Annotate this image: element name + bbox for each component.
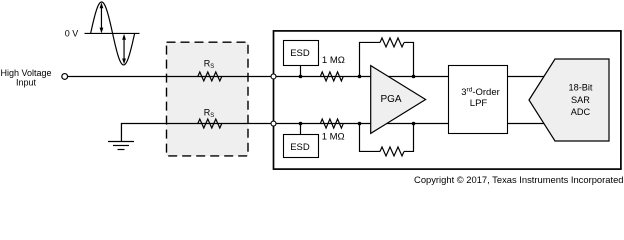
wire: ESD stub bottom — [300, 124, 302, 135]
wire: top input inside box — [276, 75, 370, 77]
ESD block bottom — [284, 135, 319, 158]
svg-text:ESD: ESD — [290, 142, 310, 153]
wire: LPF to ADC top — [508, 75, 547, 77]
sine positive amplitude arrow — [100, 7, 102, 30]
resistor 1 Mohm top — [320, 72, 343, 81]
terminal circle bottom input — [271, 121, 276, 126]
ground — [108, 142, 134, 150]
svg-text:Copyright © 2017, Texas Instru: Copyright © 2017, Texas Instruments Inco… — [414, 174, 623, 185]
LPF block 3rd-Order — [449, 66, 508, 134]
svg-text:18-Bit: 18-Bit — [568, 83, 592, 93]
terminal circle top input — [271, 74, 276, 79]
ESD block top — [284, 41, 319, 66]
op-amp PGA — [371, 66, 426, 134]
feedback wire bottom — [360, 124, 414, 152]
junction dot top feedback right — [412, 75, 416, 79]
wire: bottom input inside box — [276, 123, 370, 125]
wire: LPF to ADC bottom — [508, 123, 547, 125]
svg-text:ESD: ESD — [290, 48, 310, 59]
svg-text:1 MΩ: 1 MΩ — [322, 131, 345, 142]
junction dot bottom ESD — [299, 122, 303, 126]
wire: input terminal to box — [68, 75, 271, 77]
svg-text:0 V: 0 V — [65, 28, 79, 38]
resistor 1 Mohm bottom — [320, 119, 343, 128]
junction dot top feedback left — [358, 75, 362, 79]
resistor RS top — [198, 72, 222, 81]
main block box — [274, 31, 621, 169]
junction dot bottom feedback left — [358, 122, 362, 126]
wire: ground to box — [121, 124, 270, 142]
terminal circle High Voltage Input — [62, 74, 68, 80]
resistor RS bottom — [198, 119, 222, 128]
node VIN sine-wave source symbol — [85, 2, 140, 65]
svg-text:ADC: ADC — [571, 107, 591, 117]
ADC block 18-Bit SAR — [529, 59, 609, 141]
wire: ESD stub top — [300, 66, 302, 77]
wire: PGA output top to LPF — [385, 75, 449, 77]
svg-text:High Voltage: High Voltage — [0, 68, 51, 78]
dashed box Rs network — [167, 42, 249, 156]
wire: PGA output bottom to LPF — [385, 123, 449, 125]
feedback wire top — [360, 42, 414, 76]
feedback resistor top — [380, 38, 404, 47]
svg-text:1 MΩ: 1 MΩ — [322, 55, 345, 66]
svg-text:SAR: SAR — [571, 95, 590, 105]
junction dot bottom feedback right — [412, 122, 416, 126]
sine negative amplitude arrow — [123, 38, 125, 60]
svg-text:Input: Input — [16, 78, 37, 88]
svg-text:PGA: PGA — [380, 94, 401, 105]
feedback resistor bottom — [380, 147, 404, 156]
junction dot top ESD — [299, 75, 303, 79]
svg-text:LPF: LPF — [470, 98, 488, 109]
